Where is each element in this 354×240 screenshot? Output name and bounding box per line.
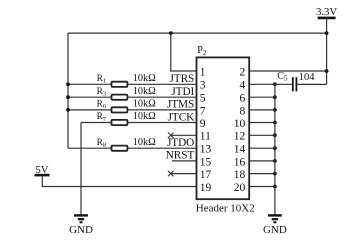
svg-text:Header 10X2: Header 10X2	[196, 203, 255, 215]
svg-text:6: 6	[239, 93, 245, 105]
wire R1 left	[68, 83, 112, 85]
wire pin 20 stub	[249, 186, 275, 188]
wire left pull-up bus	[67, 33, 69, 148]
svg-text:7: 7	[200, 105, 206, 117]
svg-text:JTRS: JTRS	[169, 73, 194, 85]
svg-text:9: 9	[200, 118, 206, 130]
wire pin 16 stub	[249, 160, 275, 162]
wire pin 14 stub	[249, 147, 275, 149]
connector P2 Header 10X2	[197, 57, 250, 199]
wire R7 ground drop	[80, 123, 82, 215]
svg-text:1: 1	[200, 66, 206, 78]
svg-text:2: 2	[239, 66, 245, 78]
capacitor C5	[277, 71, 297, 92]
power symbol 3.3V	[316, 6, 337, 18]
svg-text:JTDI: JTDI	[171, 86, 194, 98]
svg-text:12: 12	[234, 131, 246, 143]
wire R7 right	[127, 122, 196, 124]
power symbol 5V	[35, 164, 50, 176]
svg-text:JTDO: JTDO	[167, 137, 194, 149]
wire pin 18 stub	[249, 173, 275, 175]
resistor R3	[97, 87, 128, 100]
resistor R6	[97, 100, 128, 113]
junction bus/R1	[66, 82, 70, 86]
svg-text:5: 5	[200, 93, 206, 105]
svg-text:10kΩ: 10kΩ	[133, 99, 156, 110]
junction top rail / pin1 drop	[169, 31, 173, 35]
svg-text:NRST: NRST	[166, 150, 195, 162]
svg-text:10kΩ: 10kΩ	[133, 73, 156, 84]
wire R7 left	[81, 122, 112, 124]
wire pin 12 stub	[249, 134, 275, 136]
junction gnd bus pin 4	[273, 82, 277, 86]
junction gnd bus pin 10	[273, 121, 277, 125]
svg-text:13: 13	[200, 144, 212, 156]
svg-text:14: 14	[234, 144, 246, 156]
svg-text:20: 20	[234, 182, 246, 194]
svg-text:11: 11	[200, 131, 211, 143]
junction gnd bus pin 8	[273, 108, 277, 112]
wire C5 right stub	[297, 83, 326, 85]
svg-text:104: 104	[299, 72, 316, 83]
junction gnd bus pin 20	[273, 185, 277, 189]
ground right	[263, 215, 287, 235]
wire 5V to pin19	[42, 175, 196, 186]
svg-text:10: 10	[234, 118, 246, 130]
junction top rail / 3.3V vertical	[325, 31, 329, 35]
svg-text:15: 15	[200, 156, 212, 168]
junction gnd bus pin 18	[273, 172, 277, 176]
svg-text:10kΩ: 10kΩ	[133, 111, 156, 122]
wire pin 11 no-connect stub	[171, 134, 197, 136]
ground left	[69, 215, 93, 235]
svg-text:JTMS: JTMS	[167, 99, 194, 111]
wire pin 17 no-connect stub	[171, 173, 197, 175]
wire R1 right	[127, 83, 196, 85]
wire C5 left stub	[275, 83, 292, 85]
wire R8 right	[127, 147, 196, 149]
svg-text:4: 4	[239, 80, 245, 92]
svg-text:17: 17	[200, 169, 212, 181]
svg-text:19: 19	[200, 182, 212, 194]
junction gnd bus pin 12	[273, 133, 277, 137]
wire 3.3V vertical	[326, 18, 328, 85]
svg-text:JTCK: JTCK	[168, 111, 196, 123]
junction bus/R3	[66, 95, 70, 99]
wire pin 4 stub	[249, 83, 275, 85]
wire pin1 connection	[171, 33, 197, 71]
resistor R7	[97, 112, 128, 125]
wire R8 left	[68, 147, 112, 149]
junction gnd bus pin 14	[273, 146, 277, 150]
svg-text:10kΩ: 10kΩ	[133, 137, 156, 148]
svg-text:3: 3	[200, 80, 206, 92]
wire right ground bus	[274, 84, 276, 214]
wire pin 6 stub	[249, 96, 275, 98]
no-connect X pin 11	[168, 133, 174, 139]
wire R6 right	[127, 109, 196, 111]
wire pin2 to 3.3V	[249, 70, 326, 72]
wire R6 left	[68, 109, 112, 111]
wire R3 left	[68, 96, 112, 98]
junction bus/R6	[66, 108, 70, 112]
wire R3 right	[127, 96, 196, 98]
junction pin2 / 3.3V vertical	[325, 69, 329, 73]
resistor R1	[97, 74, 128, 87]
svg-text:16: 16	[234, 156, 246, 168]
wire top 3.3V rail	[68, 32, 327, 34]
svg-text:GND: GND	[69, 224, 93, 234]
junction gnd bus pin 16	[273, 159, 277, 163]
wire pin 10 stub	[249, 122, 275, 124]
svg-text:10kΩ: 10kΩ	[133, 86, 156, 97]
resistor R8	[97, 138, 128, 151]
svg-text:18: 18	[234, 169, 246, 181]
svg-text:3.3V: 3.3V	[316, 6, 337, 18]
svg-text:8: 8	[239, 105, 245, 117]
no-connect X pin 17	[168, 171, 174, 177]
junction gnd bus pin 6	[273, 95, 277, 99]
svg-text:GND: GND	[263, 224, 287, 234]
wire pin 8 stub	[249, 109, 275, 111]
wire NRST stub	[172, 160, 197, 162]
